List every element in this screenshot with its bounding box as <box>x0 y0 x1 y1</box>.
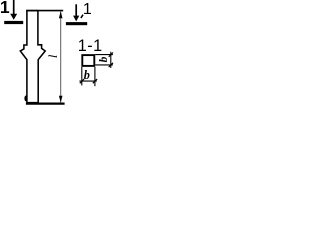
top edge / extension line <box>26 10 63 12</box>
tick bottom-left <box>80 79 84 83</box>
svg-text:1: 1 <box>83 1 92 18</box>
svg-text:b: b <box>98 56 110 62</box>
dimension line b bottom <box>79 80 96 82</box>
extension line bottom-left <box>81 67 83 86</box>
ink blob on lower left edge <box>24 96 27 102</box>
tick right-top <box>109 53 113 57</box>
svg-text:b: b <box>84 68 90 82</box>
cut plane bar left <box>4 21 23 24</box>
tick right-bottom <box>109 63 113 67</box>
bottom edge / extension line <box>26 102 65 104</box>
background <box>0 0 115 108</box>
cut arrow right <box>73 4 79 21</box>
dim arrow top <box>59 11 63 18</box>
rod body outline <box>20 11 45 103</box>
svg-text:1-1: 1-1 <box>78 37 103 55</box>
dim arrow bottom <box>59 96 63 103</box>
svg-text:l: l <box>45 54 60 58</box>
extension line right-bottom <box>95 64 113 66</box>
dimension line l <box>60 12 62 103</box>
cut arrow left <box>10 0 17 20</box>
speck near right arrow <box>81 15 83 18</box>
extension line right-top <box>95 54 113 56</box>
tick bottom-right <box>93 79 97 83</box>
dimension line b right <box>110 52 112 68</box>
cut plane bar right <box>66 22 87 25</box>
svg-text:1: 1 <box>0 0 10 17</box>
section square b x b <box>82 55 94 66</box>
extension line bottom-right <box>94 67 96 86</box>
